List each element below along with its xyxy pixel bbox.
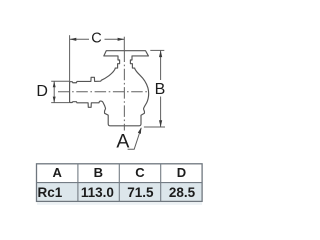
svg-text:D: D [177,165,186,180]
svg-text:C: C [91,31,101,47]
svg-text:B: B [155,81,166,98]
svg-text:71.5: 71.5 [127,185,154,200]
svg-text:A: A [53,165,63,180]
svg-text:A: A [116,131,129,153]
svg-text:B: B [94,165,103,180]
svg-text:C: C [135,165,145,180]
svg-text:28.5: 28.5 [169,185,196,200]
svg-text:113.0: 113.0 [81,185,114,200]
svg-text:D: D [36,83,48,100]
svg-text:Rc1: Rc1 [38,185,63,200]
